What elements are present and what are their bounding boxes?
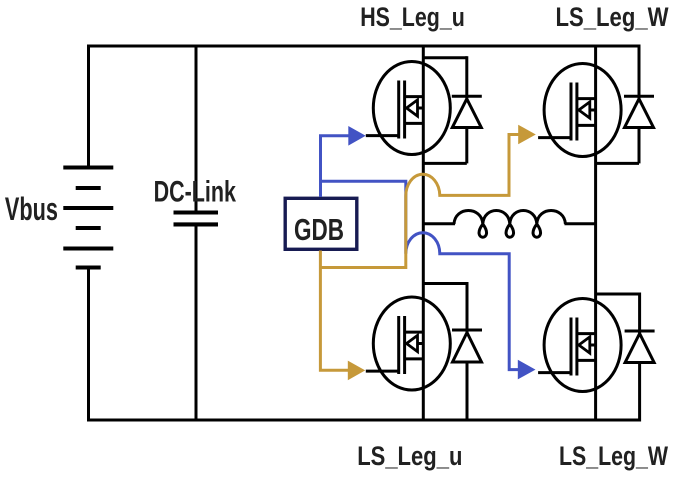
gold arrow into Q2 gate — [518, 125, 536, 145]
battery Vbus — [63, 168, 113, 268]
wire: top rail drop to diode D2 — [638, 45, 641, 48]
blue arrow into Q4 gate — [518, 360, 536, 380]
wire: D2 anode return to leg W — [596, 162, 639, 165]
svg-text:Vbus: Vbus — [5, 191, 58, 227]
wire: blue gate drive GDB top to HS_Leg_u gate — [321, 136, 350, 197]
wire: blue gate drive branch to LS_Leg_W bottom gate (hops over leg u) — [321, 181, 519, 369]
wire: D1 anode return to leg u — [423, 162, 467, 165]
inductor L (phase filter coil) — [454, 211, 565, 238]
wire: top DC rail — [87, 45, 639, 48]
GDB gate driver box — [285, 198, 357, 249]
diode D1 — [452, 56, 482, 163]
wire: drain stub HS_Leg_u diode — [423, 56, 467, 59]
transistor Q1 HS_Leg_u (MOSFET) — [366, 62, 451, 155]
svg-text:LS_Leg_W: LS_Leg_W — [556, 2, 669, 32]
wire: phase node left segment (leg u to inductor) — [423, 222, 455, 225]
wire: gold gate drive GDB bottom to LS_Leg_u gate — [320, 251, 348, 371]
diode D4 — [625, 293, 655, 422]
diode D3 — [452, 282, 482, 422]
wire: drain stub LS_Leg_u diode — [423, 282, 467, 285]
wire: DC-Link capacitor bottom lead — [195, 225, 198, 422]
svg-text:DC-Link: DC-Link — [154, 175, 237, 208]
wire: gold gate drive branch to LS_Leg_W top gate (hops over leg u) — [320, 135, 519, 268]
wire: drain stub LS_Leg_W bottom diode — [596, 293, 640, 296]
svg-text:HS_Leg_u: HS_Leg_u — [360, 2, 465, 32]
transistor Q3 LS_Leg_u (MOSFET) — [366, 297, 451, 390]
capacitor DC-Link — [174, 213, 219, 225]
svg-text:LS_Leg_u: LS_Leg_u — [357, 441, 462, 471]
wire: left vertical (battery bottom lead) — [87, 268, 90, 422]
wire: phase leg W (vertical through LS_Leg_W pair) — [594, 45, 597, 422]
wire: phase leg u (vertical through HS_Leg_u and LS_Leg_u) — [422, 45, 425, 422]
wire: phase node right segment (inductor to leg W) — [565, 222, 596, 225]
svg-text:LS_Leg_W: LS_Leg_W — [559, 441, 668, 471]
blue arrow into Q1 gate — [348, 126, 365, 146]
gold arrow into Q3 gate — [348, 361, 365, 381]
transistor Q2 LS_Leg_W top (MOSFET) — [538, 64, 621, 157]
diode D2 — [624, 45, 654, 164]
wire: DC-Link capacitor top lead — [195, 45, 198, 213]
transistor Q4 LS_Leg_W bottom (MOSFET) — [538, 299, 621, 392]
svg-text:GDB: GDB — [294, 212, 344, 247]
wire: bottom DC rail — [87, 419, 641, 422]
wire: left vertical (battery top lead) — [87, 45, 90, 168]
